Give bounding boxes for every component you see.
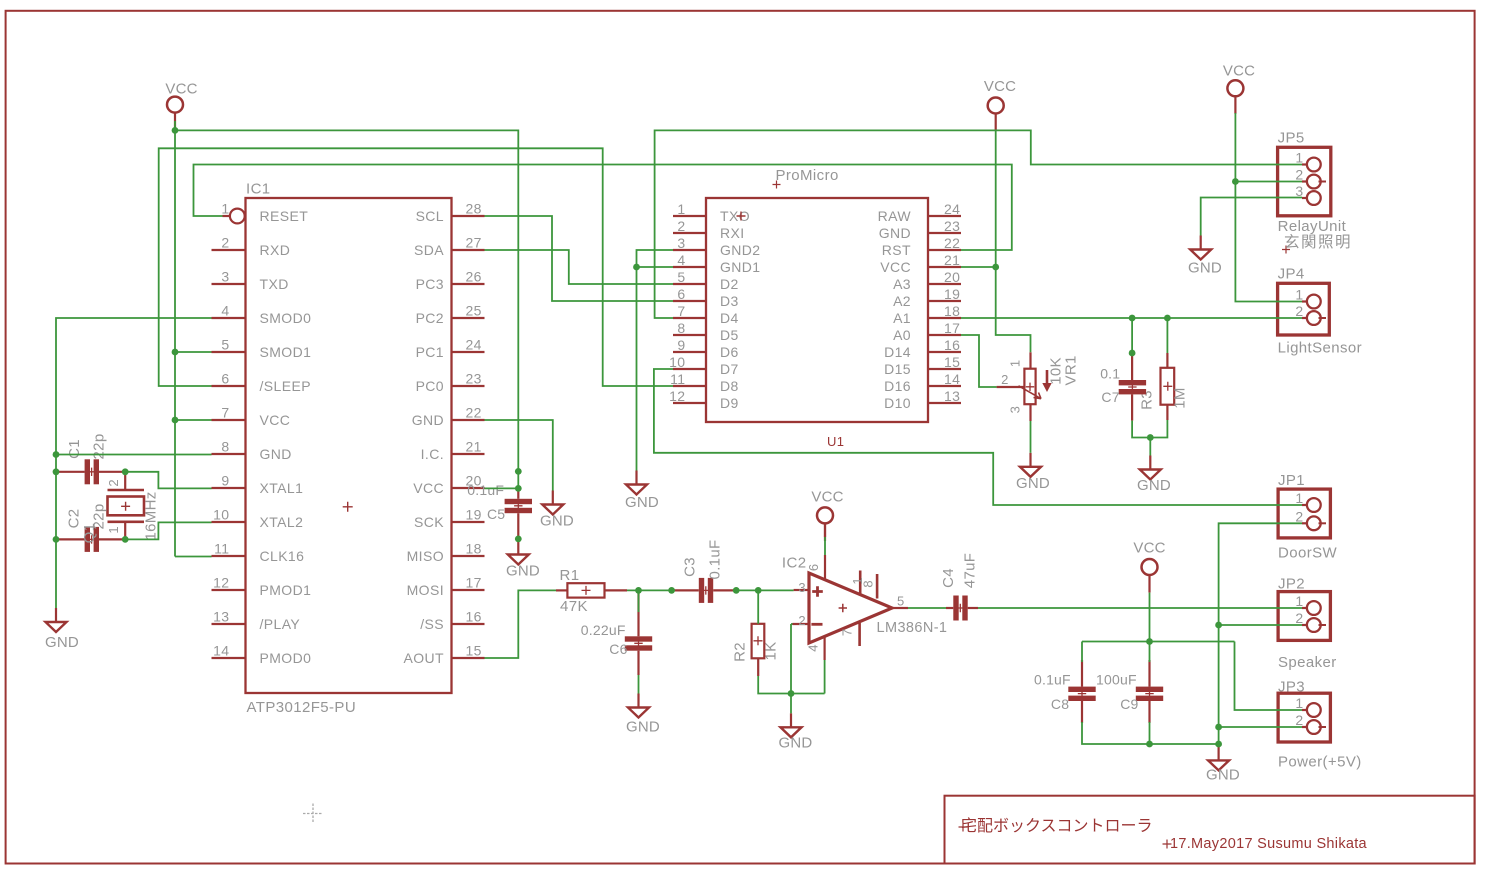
svg-text:4: 4 [677,252,685,268]
svg-text:I.C.: I.C. [421,446,444,462]
svg-text:1: 1 [1295,593,1303,609]
IC1 pin 15 AOUT [452,657,485,659]
connector JP3 [1278,693,1330,742]
svg-text:9: 9 [677,337,685,353]
U1 pin 17 A0 [928,334,961,336]
svg-text:21: 21 [466,439,482,455]
svg-text:22: 22 [944,235,960,251]
connector JP2 [1278,592,1330,641]
wire IC2 pin4 to rail [824,660,826,694]
wire to IC1 pin5 SMOD1 [175,351,212,353]
ground symbol under C5 [517,541,519,555]
ground symbol left [55,608,57,622]
svg-text:1: 1 [1295,695,1303,711]
IC1 pin 16 /SS [452,623,485,625]
ground symbol under VR1 [1029,453,1031,467]
IC1 pin 26 PC3 [452,283,485,285]
capacitor C2 22p [85,527,90,552]
wire U1 A0 to VR1 wiper [961,335,997,387]
sheet reference cross [303,804,323,824]
svg-text:GND: GND [1016,475,1050,492]
U1 pin 24 RAW [928,215,961,217]
connector JP5 [1278,147,1331,216]
svg-text:2: 2 [1295,712,1303,728]
svg-text:R1: R1 [560,567,580,584]
svg-text:GND1: GND1 [720,259,761,275]
wire to IC1 pin7 VCC [175,419,212,421]
wire VR1 pin3 to ground [1029,404,1031,421]
svg-text:GND: GND [779,735,813,752]
wire XTAL2 net [125,522,211,539]
capacitor C9 100uF [1136,687,1163,692]
wire U1 GND2/GND1 to ground [637,250,674,471]
svg-text:PC3: PC3 [416,276,444,292]
wire VCC top right symbol to JP4 pin1 [1235,113,1302,302]
svg-text:GND: GND [625,494,659,511]
svg-text:8: 8 [677,320,685,336]
svg-text:1: 1 [106,526,121,533]
U1 pin 9 D6 [673,351,706,353]
wire VCC bottom to C8/C9/JP3 pin1 [1149,593,1151,642]
svg-text:2: 2 [1295,508,1303,524]
svg-text:13: 13 [213,609,229,625]
IC1 pin 25 PC2 [452,317,485,319]
svg-text:14: 14 [213,643,229,659]
VCC supply symbol at IC2 [817,507,833,523]
svg-text:SCK: SCK [414,514,444,530]
U1 pin 6 D3 [673,300,706,302]
svg-text:5: 5 [221,337,229,353]
wire to IC1 pin11 CLK16 [175,556,212,558]
op-amp pin 1 gain bar [859,571,862,595]
IC1 pin 19 SCK [452,521,485,523]
svg-text:GND: GND [1137,477,1171,494]
IC1 pin 28 SCL [452,215,485,217]
svg-text:Power(+5V): Power(+5V) [1278,754,1362,771]
svg-text:D2: D2 [720,276,739,292]
svg-text:RelayUnit: RelayUnit [1278,218,1347,235]
svg-text:3: 3 [677,235,685,251]
svg-text:47uF: 47uF [962,553,979,588]
svg-text:GND: GND [879,225,911,241]
svg-text:VCC: VCC [811,489,843,506]
svg-text:C9: C9 [1120,696,1138,712]
title block frame [945,796,1475,864]
VCC supply symbol bottom [1142,559,1158,575]
JP4 pin 2 [1302,317,1307,319]
svg-text:12: 12 [213,575,229,591]
ground symbol U1 GND pins [635,471,637,485]
U1 ProMicro body [706,198,928,422]
JP2 pin 1 [1302,607,1307,609]
svg-text:2: 2 [677,218,685,234]
wire C5 to ground [517,539,519,542]
svg-text:0.22uF: 0.22uF [581,622,626,638]
svg-text:8: 8 [221,439,229,455]
wire VCC left rail to IC1 pin20 [174,121,176,130]
svg-text:6: 6 [806,564,821,571]
JP1 pin 1 [1302,504,1307,506]
U1 pin 13 D10 [928,402,961,404]
op-amp pin 7 bypass bar [858,623,861,646]
svg-text:GND: GND [540,513,574,530]
JP3 pin 1 [1302,709,1307,711]
capacitor C4 47uF [953,596,958,621]
svg-text:RAW: RAW [878,208,912,224]
JP1 pin 2 [1302,522,1307,524]
U1 pin 23 GND [928,232,961,234]
U1 pin 15 D15 [928,368,961,370]
IC1 ATP3012F5-PU body [246,198,452,693]
svg-text:JP4: JP4 [1278,266,1305,283]
wire to IC1 pin8 GND [56,454,212,456]
crystal Q1 16MHz [108,489,145,492]
capacitor C7 0.1 [1119,380,1146,385]
IC1 pin 23 PC0 [452,385,485,387]
op-amp pin 3 [794,589,809,591]
wire C7/R3 bottom to ground [1132,420,1167,438]
crystal pin 1 lead [124,522,126,540]
svg-text:JP3: JP3 [1278,679,1305,696]
svg-text:18: 18 [466,541,482,557]
IC1 pin 12 PMOD1 [212,589,246,591]
svg-text:XTAL1: XTAL1 [260,480,304,496]
svg-text:玄関照明: 玄関照明 [1284,233,1352,251]
svg-text:19: 19 [466,507,482,523]
svg-text:23: 23 [466,371,482,387]
svg-text:100uF: 100uF [1096,672,1137,688]
svg-text:PC1: PC1 [416,344,444,360]
op-amp + marker at noninverting input [812,586,823,597]
svg-text:C2: C2 [66,509,83,529]
title date text [1163,840,1172,849]
svg-text:RXI: RXI [720,225,745,241]
capacitor C3 0.1uF [699,578,704,603]
svg-text:3: 3 [1008,406,1023,413]
svg-text:D16: D16 [884,378,911,394]
svg-text:1: 1 [1295,287,1303,303]
title text 宅配ボックスコントローラ [959,823,968,832]
svg-text:D10: D10 [884,395,911,411]
svg-text:ProMicro: ProMicro [776,167,839,184]
wire JP1 pin2 ground column [1219,523,1302,744]
IC1 pin 22 GND [452,419,485,421]
wire XTAL1 net [125,472,211,489]
U1 pin 14 D16 [928,385,961,387]
svg-text:C1: C1 [66,439,83,459]
svg-text:24: 24 [466,337,482,353]
svg-text:47K: 47K [560,598,588,615]
ground symbol at JP5 [1200,236,1202,250]
wire VCC to IC2 pin6 [824,523,826,537]
op-amp pin 8 gain bar [876,574,879,599]
IC1 pin 2 RXD [212,249,246,251]
svg-text:Q1: Q1 [81,523,98,544]
svg-text:C4: C4 [940,568,957,588]
VCC supply symbol top left [167,97,183,113]
svg-text:GND: GND [626,719,660,736]
svg-text:10: 10 [669,354,685,370]
svg-text:1: 1 [1295,150,1303,166]
svg-text:/SLEEP: /SLEEP [260,378,311,394]
wire C8/C9 bottom rail [1082,722,1219,744]
svg-text:PMOD0: PMOD0 [260,650,312,666]
wire VCC symbol stem to U1 pin21 and VR1 pin1 [996,130,1031,352]
svg-text:JP5: JP5 [1278,130,1305,147]
svg-text:2: 2 [221,235,229,251]
op-amp - marker at inverting input [811,623,822,626]
wire C7 top lead [1131,318,1133,353]
svg-text:JP1: JP1 [1278,472,1305,489]
svg-text:RESET: RESET [260,208,309,224]
svg-text:C8: C8 [1051,696,1069,712]
wire IC1 pin20 stub link [485,487,519,489]
wire R2 top lead [757,590,759,623]
svg-text:A2: A2 [893,293,911,309]
svg-text:2: 2 [798,613,806,628]
IC1 pin 9 XTAL1 [212,487,246,489]
svg-text:1: 1 [1008,360,1023,367]
ground symbol IC1 pin22 [552,491,554,505]
svg-text:26: 26 [466,269,482,285]
junction dots [172,127,179,134]
U1 pin 20 A3 [928,283,961,285]
svg-text:2: 2 [1295,303,1303,319]
svg-text:C3: C3 [682,557,699,577]
resistor R1 47K [567,583,604,597]
svg-text:GND: GND [260,446,292,462]
U1 pin 1 TXO [673,215,706,217]
svg-text:D6: D6 [720,344,739,360]
svg-text:1: 1 [221,201,229,217]
JP5 pin 3 [1302,197,1307,199]
svg-text:5: 5 [677,269,685,285]
svg-text:PC0: PC0 [416,378,444,394]
wire C4 to JP2 pin1 Speaker [978,607,1302,609]
U1 pin 19 A2 [928,300,961,302]
svg-text:VCC: VCC [984,78,1016,95]
op-amp pin 4 V- [823,636,825,660]
svg-text:XTAL2: XTAL2 [260,514,304,530]
svg-text:VCC: VCC [880,259,911,275]
U1 pin 16 D14 [928,351,961,353]
svg-text:JP2: JP2 [1278,576,1305,593]
svg-text:VCC: VCC [165,81,197,98]
svg-text:D3: D3 [720,293,739,309]
U1 pin 22 RST [928,249,961,251]
svg-text:2: 2 [1295,167,1303,183]
IC1 pin 11 CLK16 [212,555,246,557]
IC1 pin 18 MISO [452,555,485,557]
svg-text:SCL: SCL [416,208,444,224]
svg-text:28: 28 [466,201,482,217]
U1 pin 4 GND1 [673,266,706,268]
U1 pin 8 D5 [673,334,706,336]
JP4 pin 1 [1302,300,1307,302]
JP3 pin 2 [1302,726,1307,728]
U1 pin 2 RXI [673,232,706,234]
svg-text:16MHz: 16MHz [143,491,160,540]
wire rail to ground under IC2 [790,694,792,714]
capacitor C6 0.22uF [625,636,652,641]
svg-text:9: 9 [221,473,229,489]
svg-text:7: 7 [677,303,685,319]
svg-text:25: 25 [466,303,482,319]
op-amp IC2 LM386N-1 triangle [809,573,892,643]
IC1 pin 10 XTAL2 [212,521,246,523]
svg-text:5: 5 [897,594,905,609]
wire C6 to ground [638,675,640,694]
svg-text:D5: D5 [720,327,739,343]
svg-text:D15: D15 [884,361,911,377]
crystal pin 2 lead [124,472,126,490]
svg-text:SMOD1: SMOD1 [260,344,312,360]
svg-text:IC1: IC1 [246,181,271,198]
wire bottom rail to ground [1218,744,1220,746]
IC1 pin 6 /SLEEP [212,385,246,387]
svg-text:22: 22 [466,405,482,421]
wire IC1 pin22 GND to ground symbol [485,420,553,491]
svg-text:16: 16 [944,337,960,353]
svg-text:21: 21 [944,252,960,268]
svg-text:4: 4 [805,644,820,651]
VR1 adjustment arrow [1046,370,1049,384]
svg-text:2: 2 [1295,610,1303,626]
op-amp pin 5 output [892,607,908,609]
svg-text:DoorSW: DoorSW [1278,545,1338,562]
wire VCC top right rail to U1 D4 and JP5 pin1 [655,130,1302,318]
capacitor C8 0.1uF [1068,687,1095,692]
wire JP5 pin2 branch [1235,181,1302,183]
wire R2 bottom to rail [757,658,759,676]
svg-text:/PLAY: /PLAY [260,616,301,632]
wire VCC left vertical to SMOD1/VCC/CLK16 [174,130,176,556]
svg-text:12: 12 [669,388,685,404]
svg-text:13: 13 [944,388,960,404]
potentiometer VR1 10K [1024,369,1035,405]
svg-text:D7: D7 [720,361,739,377]
svg-text:24: 24 [944,201,960,217]
VR1 wiper diagonal arrow [1019,386,1042,399]
svg-text:2: 2 [1001,372,1009,387]
wire IC2 output to C4 [908,607,946,609]
svg-text:RST: RST [882,242,911,258]
svg-text:0.1uF: 0.1uF [707,540,724,580]
svg-text:PC2: PC2 [416,310,444,326]
IC1 pin 7 VCC [212,419,246,421]
svg-text:3: 3 [221,269,229,285]
capacitor C1 22p [85,459,90,484]
wire R1 to C3 to IC2 pin3 [605,589,628,591]
svg-text:C5: C5 [487,506,505,522]
svg-text:7: 7 [221,405,229,421]
svg-text:/SS: /SS [420,616,444,632]
svg-text:Speaker: Speaker [1278,654,1337,671]
capacitor C5 0.1uF [505,499,532,504]
U1 pin 11 D8 [673,385,706,387]
svg-text:17: 17 [466,575,482,591]
svg-text:CLK16: CLK16 [260,548,305,564]
svg-text:A0: A0 [893,327,911,343]
svg-text:GND2: GND2 [720,242,761,258]
svg-text:10: 10 [213,507,229,523]
wire JP5 pin3 to ground [1201,198,1302,236]
svg-text:VCC: VCC [1133,540,1165,557]
svg-text:A1: A1 [893,310,911,326]
svg-text:2: 2 [106,479,121,486]
U1 pin 21 VCC [928,266,961,268]
wire /SLEEP to U1 D8 [159,148,673,386]
svg-text:11: 11 [670,371,685,387]
IC1 pin 21 I.C. [452,453,485,455]
svg-text:18: 18 [944,303,960,319]
svg-text:D8: D8 [720,378,739,394]
svg-text:1: 1 [1295,490,1303,506]
IC1 pin 24 PC1 [452,351,485,353]
svg-text:LightSensor: LightSensor [1278,340,1362,357]
svg-text:SMOD0: SMOD0 [260,310,312,326]
wire U1 pin21 VCC stub link [961,266,996,268]
VCC supply symbol above U1 [988,98,1004,114]
U1 pin 18 A1 [928,317,961,319]
IC1 pin 5 SMOD1 [212,351,246,353]
svg-text:GND: GND [506,563,540,580]
svg-text:AOUT: AOUT [404,650,445,666]
op-amp centre + marker [839,604,847,612]
JP5 label 玄関照明 [1282,246,1290,254]
IC1 pin 8 GND [212,453,246,455]
svg-text:TXD: TXD [260,276,289,292]
svg-text:LM386N-1: LM386N-1 [877,620,948,636]
JP5 pin 1 [1302,163,1307,165]
wire U1 D7 to JP1 pin1 [654,369,1302,505]
IC1 pin 3 TXD [212,283,246,285]
svg-text:GND: GND [45,634,79,651]
wire JP3 pin2 [1219,726,1302,728]
svg-text:8: 8 [861,580,876,587]
IC1 pin 13 /PLAY [212,623,246,625]
svg-text:6: 6 [677,286,685,302]
svg-text:15: 15 [466,643,482,659]
ground symbol under C7/R3 [1149,456,1151,470]
op-amp pin 2 [793,623,810,625]
connector JP1 [1278,489,1330,538]
svg-text:GND: GND [1188,260,1222,277]
svg-text:SDA: SDA [414,242,444,258]
svg-text:3: 3 [798,580,806,595]
svg-text:D9: D9 [720,395,739,411]
svg-text:宅配ボックスコントローラ: 宅配ボックスコントローラ [961,817,1153,835]
IC1 pin 4 SMOD0 [212,317,246,319]
U1 pin 10 D7 [673,368,706,370]
U1 pin 3 GND2 [673,249,706,251]
svg-text:20: 20 [944,269,960,285]
svg-text:C7: C7 [1101,389,1119,405]
svg-text:D4: D4 [720,310,739,326]
svg-text:6: 6 [221,371,229,387]
wire IC1 AOUT to R1 [485,590,557,658]
svg-text:19: 19 [944,286,960,302]
IC1 pin 14 PMOD0 [212,657,246,659]
svg-text:1K: 1K [763,642,780,661]
svg-text:VR1: VR1 [1063,355,1080,385]
JP2 pin 2 [1302,624,1307,626]
svg-text:23: 23 [944,218,960,234]
U1 pin 12 D9 [673,402,706,404]
svg-text:GND: GND [412,412,444,428]
svg-text:U1: U1 [827,434,844,449]
svg-text:0.1uF: 0.1uF [1034,672,1071,688]
